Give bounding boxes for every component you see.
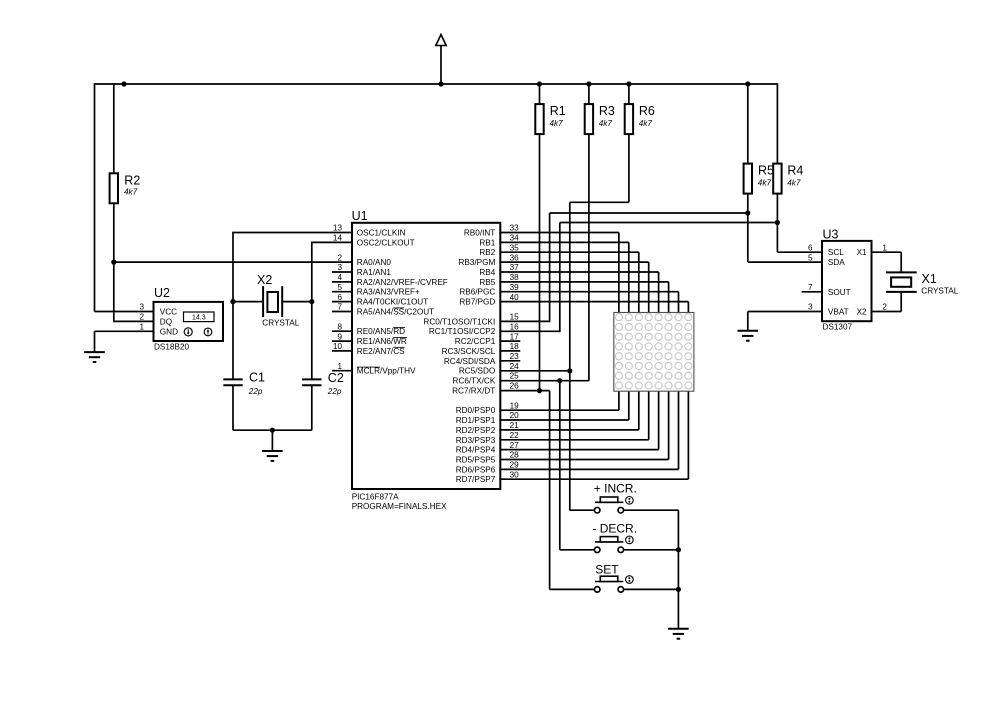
microcontroller U1 PIC16F877A — [352, 223, 500, 489]
svg-text:RD0/PSP0: RD0/PSP0 — [456, 406, 496, 415]
svg-text:DS1307: DS1307 — [823, 323, 853, 332]
svg-text:R5: R5 — [758, 163, 774, 177]
svg-text:14.3: 14.3 — [192, 314, 206, 321]
svg-text:RA4/T0CKI/C1OUT: RA4/T0CKI/C1OUT — [357, 298, 428, 307]
wire: left VCC rail down to U2 — [94, 83, 96, 311]
node R3 rail junction — [586, 81, 591, 86]
push button INCR — [570, 509, 595, 511]
node: power rail junction — [438, 81, 443, 86]
svg-text:RE0/AN5/RD: RE0/AN5/RD — [357, 327, 405, 336]
wire matrix top pin 4 — [648, 262, 650, 312]
svg-text:24: 24 — [510, 362, 520, 371]
wire OSC1/CLKIN pin 13 — [233, 232, 352, 234]
wire X1 pin 2 — [872, 311, 902, 313]
svg-text:15: 15 — [510, 313, 520, 322]
svg-text:21: 21 — [510, 421, 520, 430]
pin 5 stub — [332, 291, 352, 293]
svg-text:SOUT: SOUT — [828, 288, 851, 297]
svg-text:RD4/PSP4: RD4/PSP4 — [456, 446, 496, 455]
ground (U3) — [738, 331, 759, 341]
wire matrix top pin 5 — [658, 272, 660, 313]
sensor U2 DS18B20 — [154, 302, 224, 341]
wire RB7 to matrix — [500, 301, 688, 303]
wire R2 top — [113, 84, 115, 173]
node DECR/common junction — [676, 547, 681, 552]
pin 9 stub — [332, 340, 352, 342]
svg-text:R1: R1 — [550, 104, 566, 118]
wire R6 jog — [570, 201, 629, 203]
svg-text:2: 2 — [337, 253, 342, 262]
wire OSC1 vertical — [232, 232, 234, 302]
svg-text:RB6/PGC: RB6/PGC — [459, 288, 495, 297]
svg-text:X1: X1 — [857, 248, 867, 257]
svg-text:OSC1/CLKIN: OSC1/CLKIN — [357, 229, 406, 238]
wire matrix top pin 6 — [668, 282, 670, 313]
wire R4 top — [776, 83, 778, 163]
svg-text:X1: X1 — [922, 272, 937, 286]
pin stub — [500, 360, 520, 362]
wire R5 top — [747, 84, 749, 164]
node X2 left junction — [230, 299, 235, 304]
node: stray junction dot on top rail — [121, 81, 126, 86]
wire RD5 to matrix — [500, 459, 668, 461]
resistor R4 — [773, 164, 781, 194]
wire matrix bottom pin 3 — [638, 391, 640, 430]
pin 6 stub — [332, 301, 352, 303]
svg-text:30: 30 — [510, 470, 520, 479]
svg-text:RA3/AN3/VREF+: RA3/AN3/VREF+ — [357, 288, 420, 297]
pin stub — [500, 340, 520, 342]
svg-text:25: 25 — [510, 372, 520, 381]
push button SET — [550, 588, 595, 590]
wire RC7 pin 26 — [500, 390, 549, 392]
resistor R2 — [110, 173, 118, 203]
wire U3 ground drop — [747, 312, 749, 331]
svg-text:RA2/AN2/VREF-/CVREF: RA2/AN2/VREF-/CVREF — [357, 278, 448, 287]
svg-text:6: 6 — [337, 293, 342, 302]
wire RD4 to matrix — [500, 449, 658, 451]
svg-text:RD5/PSP5: RD5/PSP5 — [456, 456, 496, 465]
svg-text:2: 2 — [882, 303, 887, 312]
wire RD3 to matrix — [500, 439, 648, 441]
svg-text:SDA: SDA — [828, 258, 845, 267]
ground (U2) — [84, 352, 105, 362]
wire U3 VBAT pin 3 — [748, 311, 822, 313]
crystal X1 — [886, 272, 917, 292]
resistor R5 — [744, 164, 752, 194]
wire R6 vertical to INCR — [569, 202, 571, 510]
U2 decrement button icon — [184, 328, 192, 336]
svg-text:PROGRAM=FINALS.HEX: PROGRAM=FINALS.HEX — [352, 502, 447, 511]
svg-text:33: 33 — [510, 224, 520, 233]
wire RC1 vertical (SCL net) — [559, 223, 561, 333]
svg-text:RA0/AN0: RA0/AN0 — [357, 258, 392, 267]
wire SCL net horizontal — [560, 222, 778, 224]
svg-text:34: 34 — [510, 234, 520, 243]
svg-text:U2: U2 — [154, 286, 170, 300]
svg-text:RC0/T1OSO/T1CKI: RC0/T1OSO/T1CKI — [423, 317, 495, 326]
svg-text:RB5: RB5 — [479, 278, 495, 287]
svg-text:RC3/SCK/SCL: RC3/SCK/SCL — [442, 347, 496, 356]
wire OSC2 vertical — [311, 242, 313, 302]
svg-text:4k7: 4k7 — [124, 188, 138, 197]
resistor R3 — [585, 104, 593, 134]
power symbol (VCC arrow) — [440, 45, 442, 84]
svg-text:RE1/AN6/WR: RE1/AN6/WR — [357, 337, 407, 346]
wire matrix top pin 2 — [628, 242, 630, 312]
ground (C1/C2) — [262, 451, 283, 461]
svg-text:R2: R2 — [124, 173, 140, 187]
svg-text:RB4: RB4 — [479, 268, 495, 277]
svg-text:RD3/PSP3: RD3/PSP3 — [456, 436, 496, 445]
svg-text:10: 10 — [333, 342, 343, 351]
node R1 rail junction — [537, 81, 542, 86]
RTC U3 DS1307 — [822, 241, 872, 321]
svg-text:RA5/AN4/SS/C2OUT: RA5/AN4/SS/C2OUT — [357, 308, 434, 317]
wire X1 pin 1 — [872, 251, 902, 253]
U2 temperature display 14.3 — [184, 312, 215, 322]
wire U2 VCC pin 3 — [95, 311, 154, 313]
pin 1 stub — [332, 370, 352, 372]
svg-text:6: 6 — [808, 243, 813, 252]
wire buttons common to ground — [677, 510, 679, 629]
wire RB2 to matrix — [500, 251, 639, 253]
svg-text:22p: 22p — [248, 387, 263, 396]
wire RB4 to matrix — [500, 271, 658, 273]
svg-text:16: 16 — [510, 322, 520, 331]
wire RC7 branch to SET — [549, 391, 551, 590]
pin 4 stub — [332, 281, 352, 283]
svg-text:R3: R3 — [599, 104, 615, 118]
svg-text:R6: R6 — [639, 104, 655, 118]
svg-text:23: 23 — [510, 352, 520, 361]
svg-text:RC4/SDI/SDA: RC4/SDI/SDA — [444, 357, 496, 366]
node R4/SCL junction — [775, 220, 780, 225]
wire U3 SDA pin 5 — [748, 261, 822, 263]
wire RD7 to matrix — [500, 478, 688, 480]
svg-text:3: 3 — [139, 303, 144, 312]
svg-text:4k7: 4k7 — [787, 179, 801, 188]
pin 8 stub — [332, 330, 352, 332]
wire OSC2/CLKOUT pin 14 — [312, 241, 352, 243]
wire R2 bottom to DQ — [113, 203, 115, 321]
svg-text:28: 28 — [510, 451, 520, 460]
svg-text:RB0/INT: RB0/INT — [464, 229, 495, 238]
wire RA0/AN0 to R2 — [114, 261, 352, 263]
node R6 rail junction — [626, 81, 631, 86]
svg-text:GND: GND — [160, 327, 178, 336]
svg-text:RB7/PGD: RB7/PGD — [459, 298, 495, 307]
wire matrix bottom pin 7 — [678, 391, 680, 469]
svg-text:4k7: 4k7 — [758, 179, 772, 188]
svg-text:C2: C2 — [328, 371, 344, 385]
wire RB6 to matrix — [500, 291, 678, 293]
svg-text:CRYSTAL: CRYSTAL — [262, 319, 299, 328]
wire R1 top — [539, 84, 541, 104]
wire RC5 pin 24 — [500, 370, 570, 372]
svg-text:3: 3 — [808, 303, 813, 312]
svg-text:7: 7 — [808, 283, 813, 292]
svg-text:14: 14 — [333, 234, 343, 243]
svg-text:RC2/CCP1: RC2/CCP1 — [455, 337, 496, 346]
svg-text:RC6/TX/CK: RC6/TX/CK — [453, 377, 496, 386]
svg-text:SCL: SCL — [828, 248, 844, 257]
svg-text:RC1/T1OSI/CCP2: RC1/T1OSI/CCP2 — [429, 327, 496, 336]
wire RB0 to matrix — [500, 232, 619, 234]
wire RB3 to matrix — [500, 261, 648, 263]
wire C2 bottom — [311, 385, 313, 430]
wire RD0 to matrix — [500, 409, 619, 411]
wire RC6 pin 25 — [500, 380, 589, 382]
wire U3 SOUT stub pin 7 — [802, 291, 822, 293]
svg-text:VCC: VCC — [160, 308, 177, 317]
wire RD2 to matrix — [500, 429, 639, 431]
wire: top VCC power rail — [95, 83, 778, 85]
svg-text:MCLR/Vpp/THV: MCLR/Vpp/THV — [357, 367, 416, 376]
svg-text:22p: 22p — [327, 387, 342, 396]
wire RB1 to matrix — [500, 241, 629, 243]
node C1/C2 ground junction — [270, 428, 275, 433]
wire R6 top — [628, 84, 630, 104]
svg-text:U1: U1 — [352, 209, 368, 223]
resistor R6 — [625, 104, 633, 134]
wire C1-C2 bottom rail — [233, 429, 312, 431]
wire RD1 to matrix — [500, 419, 629, 421]
wire R6 bottom — [628, 134, 630, 202]
svg-text:3: 3 — [337, 263, 342, 272]
wire RB5 to matrix — [500, 281, 668, 283]
node R5/SDA junction — [745, 210, 750, 215]
svg-text:22: 22 — [510, 431, 520, 440]
wire matrix bottom pin 1 — [618, 391, 620, 410]
ground (buttons) — [668, 629, 689, 639]
svg-text:- DECR.: - DECR. — [592, 522, 637, 536]
svg-text:38: 38 — [510, 273, 520, 282]
pin 10 stub — [332, 350, 352, 352]
wire matrix top pin 7 — [678, 292, 680, 313]
svg-text:35: 35 — [510, 243, 520, 252]
resistor R1 — [535, 104, 543, 134]
svg-text:X2: X2 — [257, 273, 272, 287]
wire matrix top pin 1 — [618, 233, 620, 313]
wire matrix top pin 8 — [687, 302, 689, 313]
wire R3 top — [588, 84, 590, 104]
wire RC6 branch to DECR — [559, 381, 561, 550]
node X2 right junction — [309, 299, 314, 304]
svg-text:RB3/PGM: RB3/PGM — [458, 258, 495, 267]
crystal X2 — [263, 286, 282, 317]
wire matrix bottom pin 2 — [628, 391, 630, 420]
wire R3 bottom to RC6 — [588, 134, 590, 381]
svg-text:26: 26 — [510, 382, 520, 391]
svg-text:PIC16F877A: PIC16F877A — [352, 492, 399, 501]
svg-text:C1: C1 — [249, 371, 265, 385]
svg-text:13: 13 — [333, 224, 343, 233]
wire U2 GND pin 1 — [95, 330, 154, 332]
svg-text:7: 7 — [337, 303, 342, 312]
svg-text:39: 39 — [510, 283, 520, 292]
svg-text:RA1/AN1: RA1/AN1 — [357, 268, 392, 277]
svg-text:2: 2 — [139, 313, 144, 322]
svg-text:RC7/RX/DT: RC7/RX/DT — [452, 386, 495, 395]
svg-text:27: 27 — [510, 441, 520, 450]
wire U2 GND drop — [94, 331, 96, 352]
node RC5/R6 junction — [567, 368, 572, 373]
node RC7/R1 junction — [537, 388, 542, 393]
capacitor C2 — [302, 379, 321, 385]
wire crystal X2 left — [233, 301, 263, 303]
svg-text:RB1: RB1 — [479, 238, 495, 247]
svg-text:37: 37 — [510, 263, 520, 272]
svg-text:1: 1 — [882, 243, 887, 252]
svg-text:4k7: 4k7 — [599, 119, 613, 128]
svg-text:8: 8 — [337, 322, 342, 331]
wire ground drop — [271, 430, 273, 451]
svg-text:RD6/PSP6: RD6/PSP6 — [456, 465, 496, 474]
svg-text:OSC2/CLKOUT: OSC2/CLKOUT — [357, 238, 415, 247]
svg-text:5: 5 — [808, 253, 813, 262]
svg-text:4k7: 4k7 — [639, 119, 653, 128]
LED matrix 8x8 — [614, 313, 694, 392]
wire SDA net horizontal — [550, 212, 748, 214]
pin 3 stub — [332, 271, 352, 273]
svg-text:VBAT: VBAT — [828, 308, 849, 317]
svg-text:U3: U3 — [823, 227, 839, 241]
wire C2 top — [311, 302, 313, 380]
svg-text:9: 9 — [337, 332, 342, 341]
svg-text:20: 20 — [510, 411, 520, 420]
wire X1 top vertical — [900, 252, 902, 272]
wire matrix bottom pin 5 — [658, 391, 660, 449]
svg-text:40: 40 — [510, 293, 520, 302]
svg-text:DS18B20: DS18B20 — [154, 342, 189, 351]
svg-text:R4: R4 — [787, 163, 803, 177]
wire RC1 pin 16 — [500, 330, 560, 332]
svg-text:36: 36 — [510, 253, 520, 262]
svg-text:5: 5 — [337, 283, 342, 292]
wire matrix bottom pin 4 — [648, 391, 650, 440]
push button DECR — [560, 549, 595, 551]
wire C1 bottom — [232, 385, 234, 430]
svg-text:4: 4 — [337, 273, 342, 282]
svg-text:RD2/PSP2: RD2/PSP2 — [456, 426, 496, 435]
svg-text:+ INCR.: + INCR. — [594, 482, 637, 496]
wire U3 SCL pin 6 — [777, 251, 822, 253]
wire matrix top pin 3 — [638, 252, 640, 312]
svg-text:4k7: 4k7 — [550, 119, 564, 128]
wire matrix bottom pin 6 — [668, 391, 670, 459]
node R5 rail junction — [745, 81, 750, 86]
wire RC0 vertical (SDA net) — [549, 213, 551, 322]
svg-text:RB2: RB2 — [479, 248, 495, 257]
svg-text:19: 19 — [510, 401, 520, 410]
svg-text:18: 18 — [510, 342, 520, 351]
svg-text:RD1/PSP1: RD1/PSP1 — [456, 416, 496, 425]
wire R5 bottom to SDA — [747, 194, 749, 263]
wire RD6 to matrix — [500, 468, 678, 470]
svg-text:CRYSTAL: CRYSTAL — [921, 287, 958, 296]
svg-text:17: 17 — [510, 332, 520, 341]
node R2/RA0 junction — [111, 260, 116, 265]
svg-text:1: 1 — [139, 323, 144, 332]
pin 7 stub — [332, 311, 352, 313]
wire C1 top — [232, 302, 234, 380]
wire RC0 pin 15 — [500, 320, 549, 322]
capacitor C1 — [223, 379, 242, 385]
wire U2 DQ pin 2 — [113, 320, 153, 322]
svg-text:1: 1 — [337, 362, 342, 371]
node RC6 branch junction — [557, 378, 562, 383]
U2 increment button icon — [204, 328, 212, 336]
wire X1 bottom vertical — [900, 292, 902, 312]
wire crystal X2 right — [282, 301, 312, 303]
pin stub — [500, 350, 520, 352]
svg-text:RE2/AN7/CS: RE2/AN7/CS — [357, 347, 405, 356]
svg-text:X2: X2 — [857, 308, 867, 317]
svg-text:DQ: DQ — [160, 318, 172, 327]
svg-text:RC5/SDO: RC5/SDO — [459, 367, 495, 376]
node SET/common junction — [676, 587, 681, 592]
svg-text:RD7/PSP7: RD7/PSP7 — [456, 475, 496, 484]
wire matrix bottom pin 8 — [687, 391, 689, 479]
svg-text:29: 29 — [510, 461, 520, 470]
wire R1 bottom to RC7 — [539, 134, 541, 391]
svg-text:SET: SET — [595, 563, 619, 577]
wire R4 bottom to SCL — [776, 194, 778, 253]
